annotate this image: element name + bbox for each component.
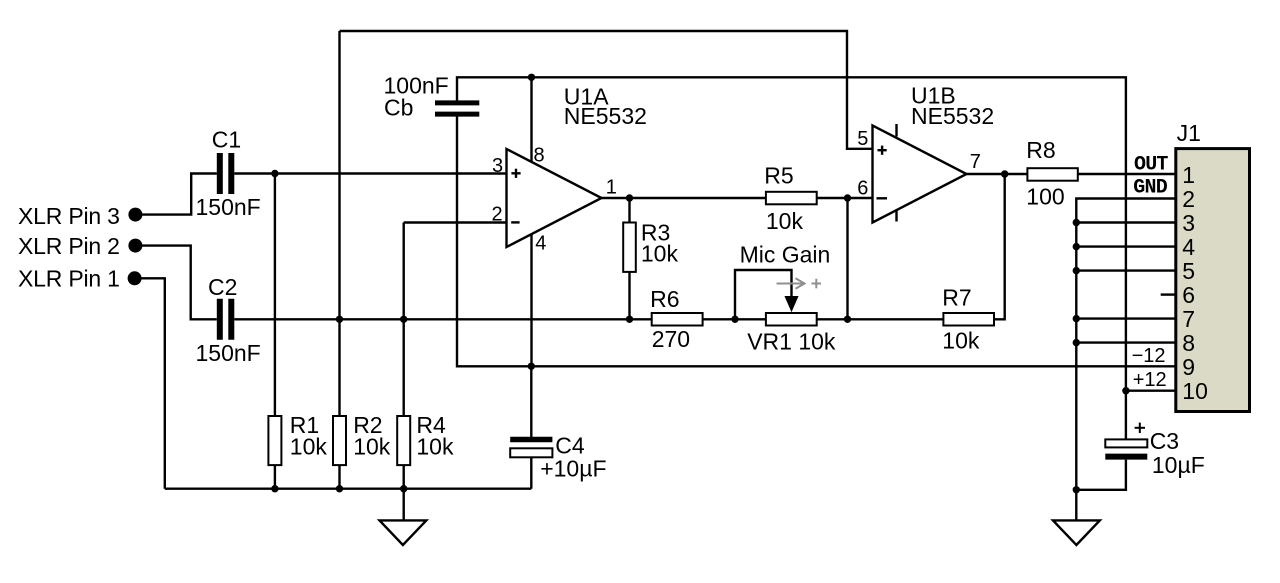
capacitor C1 — [220, 153, 232, 194]
net label -12 — [1132, 345, 1166, 367]
svg-text:R8: R8 — [1026, 137, 1055, 163]
pin number 8 U1A — [534, 145, 545, 167]
pin number 7 U1B — [970, 151, 981, 173]
svg-text:GND: GND — [1133, 176, 1167, 199]
svg-text:J1: J1 — [1177, 120, 1201, 146]
op-amp U1A minus input mark — [511, 221, 519, 223]
label R7 — [942, 285, 971, 311]
pin number 2 U1A — [492, 204, 503, 226]
ground symbol left — [380, 520, 427, 545]
node junction C2 row / R2 column — [336, 316, 343, 323]
wire C4 bottom to ground row — [530, 457, 532, 488]
capacitor C3 — [1105, 439, 1147, 456]
svg-text:VR1 10k: VR1 10k — [747, 329, 836, 355]
label C1 — [212, 127, 241, 153]
node junction R1/ground row — [271, 485, 278, 492]
node junction GND bus pin 8 — [1073, 339, 1080, 346]
wire R1 to ground row — [274, 465, 276, 489]
pin number 8 J1 — [1182, 330, 1195, 356]
svg-text:4: 4 — [535, 232, 546, 254]
capacitor Cb — [435, 103, 479, 114]
svg-text:XLR Pin 3: XLR Pin 3 — [18, 203, 120, 229]
connector J1 body — [1176, 149, 1250, 412]
net label OUT — [1134, 153, 1168, 176]
wire ground stub — [403, 489, 405, 521]
svg-text:NE5532: NE5532 — [911, 103, 994, 129]
svg-text:10k: 10k — [766, 208, 804, 234]
svg-text:1: 1 — [606, 176, 617, 198]
wire U1B output — [967, 173, 1028, 175]
wire R4 to ground row — [403, 465, 405, 489]
svg-text:10k: 10k — [416, 434, 454, 460]
resistor R5 — [766, 192, 817, 205]
value R1 10k — [290, 434, 328, 460]
svg-text:OUT: OUT — [1134, 153, 1168, 176]
svg-text:2: 2 — [1182, 186, 1195, 212]
wire C3 bottom to GND bus — [1076, 460, 1126, 490]
svg-text:150nF: 150nF — [196, 194, 261, 220]
net label +12 — [1133, 369, 1167, 391]
svg-text:1: 1 — [1182, 162, 1195, 188]
wire J1 pin 8 stub — [1076, 341, 1176, 343]
wire J1 pin 10 stub +12 — [1126, 390, 1176, 392]
net label GND — [1133, 176, 1167, 199]
wire U1A pin 2 loop — [404, 221, 507, 223]
label R4 — [416, 412, 446, 438]
pin number 10 J1 — [1182, 378, 1208, 404]
pin number 3 U1A — [492, 155, 503, 177]
node junction U1B out / R7 — [1001, 170, 1008, 177]
op-amp U1B — [873, 126, 967, 223]
node junction C1/R1 — [271, 170, 278, 177]
resistor R4 — [397, 416, 410, 465]
wire XLR pin 3 to C1 — [135, 174, 216, 215]
value VR1 10k — [747, 329, 836, 355]
node XLR Pin 3 terminal — [128, 208, 142, 222]
label XLR Pin 2 — [18, 233, 120, 259]
label R5 — [764, 163, 793, 189]
resistor R3 — [623, 223, 636, 272]
svg-text:10: 10 — [1182, 378, 1208, 404]
svg-text:10µF: 10µF — [1152, 452, 1205, 478]
label Mic Gain — [740, 242, 831, 268]
wire feedback riser to VR1 row — [846, 198, 848, 319]
svg-text:+10µF: +10µF — [540, 456, 606, 482]
svg-text:2: 2 — [492, 204, 503, 226]
svg-text:8: 8 — [534, 145, 545, 167]
node junction R2/ground row — [336, 485, 343, 492]
node junction -12 rail / C4 — [528, 363, 535, 370]
label XLR Pin 3 — [18, 203, 120, 229]
wire R4 column — [403, 223, 405, 417]
op-amp U1B power stub bottom — [895, 210, 897, 222]
svg-text:100: 100 — [1026, 183, 1064, 209]
svg-text:10k: 10k — [641, 240, 679, 266]
adjustment direction arrow — [777, 278, 822, 288]
wire XLR pin 1 down to ground row — [135, 278, 165, 488]
op-amp U1A plus input mark — [511, 169, 520, 178]
wire Cb bottom / -12 rail — [457, 116, 1176, 366]
resistor R1 — [268, 416, 281, 465]
pin number 5 U1B — [857, 128, 868, 150]
node junction GND bus pin 7 — [1073, 315, 1080, 322]
value R5 10k — [766, 208, 804, 234]
label R8 — [1026, 137, 1055, 163]
op-amp U1B power stub top — [895, 124, 897, 137]
svg-text:R7: R7 — [942, 285, 971, 311]
node junction VR1 left / wiper — [731, 316, 738, 323]
svg-text:Mic Gain: Mic Gain — [740, 242, 831, 268]
resistor R2 — [333, 416, 346, 465]
label R6 — [650, 286, 679, 312]
node XLR Pin 2 terminal — [128, 239, 142, 253]
svg-text:NE5532: NE5532 — [564, 103, 647, 129]
svg-text:10k: 10k — [353, 434, 391, 460]
pin number 6 U1B — [857, 178, 868, 200]
potentiometer VR1 wiper arrow — [785, 297, 798, 312]
label C3 — [1150, 428, 1179, 454]
svg-text:−12: −12 — [1132, 345, 1166, 367]
wire R7 up to output node — [994, 174, 1005, 319]
svg-text:8: 8 — [1182, 330, 1195, 356]
svg-text:R6: R6 — [650, 286, 679, 312]
node junction VR1 right / feedback — [844, 316, 851, 323]
svg-text:C2: C2 — [208, 274, 237, 300]
pin number 3 J1 — [1182, 210, 1195, 236]
wire J1 pin 3 stub — [1076, 221, 1176, 223]
wire J1 pin 7 stub — [1076, 317, 1176, 319]
label XLR Pin 1 — [18, 266, 120, 292]
label J1 — [1177, 120, 1201, 146]
node junction R4/ground row — [400, 485, 407, 492]
wire C4 top riser — [530, 366, 532, 437]
wire J1 pin 5 stub — [1076, 269, 1176, 271]
node junction GND bus / C3 — [1073, 486, 1080, 493]
svg-text:9: 9 — [1182, 354, 1195, 380]
label R2 — [353, 412, 382, 438]
node XLR Pin 1 terminal — [128, 271, 142, 285]
wire U1A out to R5 — [630, 197, 766, 199]
capacitor C2 — [220, 299, 232, 340]
svg-text:6: 6 — [857, 178, 868, 200]
wire R2 column — [338, 31, 340, 416]
value C3 10uF — [1152, 452, 1205, 478]
svg-text:6: 6 — [1182, 282, 1195, 308]
value R8 100 — [1026, 183, 1064, 209]
resistor R8 — [1027, 168, 1077, 181]
label Cb value 100nF — [384, 73, 449, 99]
wire C3 top riser — [1125, 391, 1127, 440]
op-amp U1B minus input mark — [877, 197, 888, 199]
svg-text:10k: 10k — [290, 434, 328, 460]
wire J1 pin 6 stub — [1161, 293, 1176, 295]
wire R3 bottom riser — [628, 272, 630, 319]
value C4 +10uF — [540, 456, 606, 482]
value U1A NE5532 — [564, 103, 647, 129]
op-amp U1A — [507, 149, 602, 247]
pin number 7 J1 — [1182, 306, 1195, 332]
op-amp U1B plus input mark — [878, 146, 887, 155]
wire VR1 to R7 — [817, 318, 944, 320]
label C4 — [555, 433, 585, 459]
label U1B — [911, 83, 956, 109]
svg-text:3: 3 — [492, 155, 503, 177]
svg-text:R5: R5 — [764, 163, 793, 189]
wire U1A pin 4 riser — [530, 234, 532, 366]
node junction R3 / R6 row — [626, 316, 633, 323]
wire R5 to U1B pin 6 node — [817, 197, 848, 199]
capacitor C3 plus mark — [1135, 423, 1145, 433]
svg-text:7: 7 — [970, 151, 981, 173]
value R7 10k — [942, 328, 980, 354]
wire +12 rail — [457, 77, 1126, 390]
svg-text:+12: +12 — [1133, 369, 1167, 391]
svg-text:C3: C3 — [1150, 428, 1179, 454]
node junction GND bus pin 4 — [1073, 243, 1080, 250]
potentiometer VR1 — [766, 313, 817, 326]
value C1 150nF — [196, 194, 261, 220]
wire ground row — [165, 488, 532, 490]
svg-text:5: 5 — [1182, 258, 1195, 284]
resistor R7 — [943, 313, 994, 326]
label Cb — [384, 94, 413, 120]
svg-text:4: 4 — [1182, 234, 1195, 260]
wire J1 pin 4 stub — [1076, 245, 1176, 247]
capacitor C4 — [510, 440, 552, 458]
pin number 5 J1 — [1182, 258, 1195, 284]
label R3 — [641, 220, 670, 246]
node junction +12 / C3 — [1122, 387, 1129, 394]
value R3 10k — [641, 240, 679, 266]
svg-text:XLR Pin 1: XLR Pin 1 — [18, 266, 120, 292]
svg-text:7: 7 — [1182, 306, 1195, 332]
node junction +12 rail / U1A pin 8 — [528, 74, 535, 81]
pin number 6 J1 — [1182, 282, 1195, 308]
node junction GND bus pin 3 — [1073, 219, 1080, 226]
pin number 4 J1 — [1182, 234, 1195, 260]
node junction R5 / U1B pin 6 / feedback — [844, 194, 851, 201]
wire U1A output — [602, 197, 630, 199]
wire VR1 wiper loop — [735, 270, 792, 319]
svg-text:5: 5 — [857, 128, 868, 150]
svg-text:150nF: 150nF — [196, 340, 261, 366]
svg-text:3: 3 — [1182, 210, 1195, 236]
wire R2 to ground row — [338, 465, 340, 489]
svg-text:270: 270 — [652, 326, 690, 352]
pin number 1 J1 — [1182, 162, 1195, 188]
svg-text:Cb: Cb — [384, 94, 413, 120]
wire to U1B pin 6 — [848, 197, 873, 199]
pin number 1 U1A — [606, 176, 617, 198]
wire R6 to VR1 — [703, 318, 766, 320]
svg-text:10k: 10k — [942, 328, 980, 354]
value R2 10k — [353, 434, 391, 460]
wire R8 to J1 pin 1 OUT — [1078, 173, 1176, 175]
wire C2 row to R6 — [234, 318, 651, 320]
node junction U1A out / R3 — [626, 194, 633, 201]
value C2 150nF — [196, 340, 261, 366]
wire U1A pin 8 riser — [530, 77, 532, 162]
label R1 — [290, 412, 319, 438]
wire R1 column — [274, 174, 276, 417]
node junction C2 row / R4 column — [400, 316, 407, 323]
wire R3 top riser — [628, 198, 630, 223]
value U1B NE5532 — [911, 103, 994, 129]
resistor R6 — [652, 313, 703, 326]
value R6 270 — [652, 326, 690, 352]
label C2 — [208, 274, 237, 300]
pin number 4 U1A — [535, 232, 546, 254]
value R4 10k — [416, 434, 454, 460]
svg-text:C1: C1 — [212, 127, 241, 153]
node junction GND bus pin 5 — [1073, 267, 1080, 274]
ground symbol right — [1053, 520, 1100, 545]
wire GND bus from J1 pin 2 — [1076, 199, 1176, 521]
wire C1 to U1A pin 3 — [234, 172, 506, 174]
wire XLR pin 2 to C2 — [135, 246, 216, 320]
svg-text:XLR Pin 2: XLR Pin 2 — [18, 233, 120, 259]
pin number 2 J1 — [1182, 186, 1195, 212]
pin number 9 J1 — [1182, 354, 1195, 380]
wire top feedback rail to U1B pin 5 — [340, 31, 873, 149]
label U1A — [564, 83, 609, 109]
